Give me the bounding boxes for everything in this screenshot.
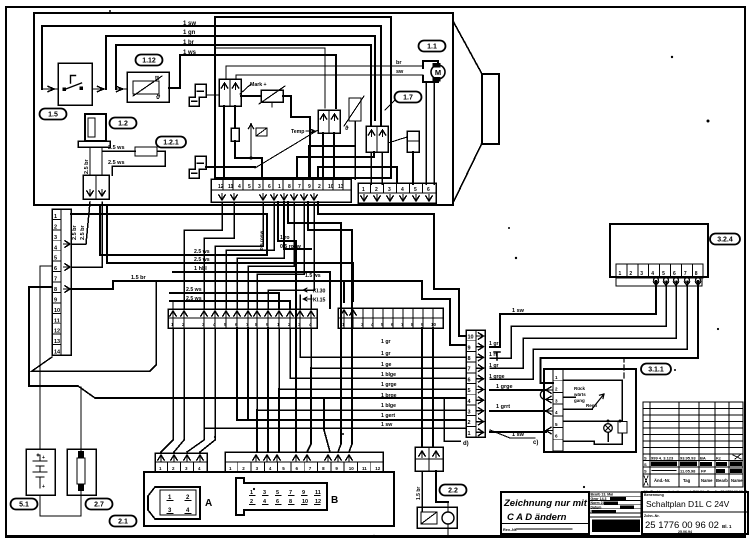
overheat sensor box — [261, 90, 283, 102]
svg-text:Tag: Tag — [683, 478, 691, 483]
svg-text:Rev.-Nr.: Rev.-Nr. — [503, 528, 517, 532]
strip B pins — [253, 455, 259, 462]
wire iface row6 — [290, 328, 466, 378]
svg-text:6: 6 — [427, 187, 430, 193]
324 lower rect — [616, 277, 702, 286]
terminal block pins down — [87, 190, 93, 197]
wire 2.2 left drop — [421, 471, 423, 511]
revision table — [643, 402, 743, 487]
svg-text:1 rt: 1 rt — [489, 352, 497, 358]
wire drop s1p7 — [257, 202, 304, 308]
temp pointer diagonal — [255, 130, 318, 168]
switch S1 box — [58, 63, 92, 105]
311 lamp circle — [604, 424, 613, 433]
311 connector strip — [553, 369, 563, 451]
motor feed drops — [425, 82, 427, 184]
svg-text:C A D ändern: C A D ändern — [507, 512, 567, 523]
wire drop s1p5 — [237, 202, 284, 308]
311 wire lamp row — [563, 420, 620, 422]
svg-text:wärts: wärts — [573, 392, 586, 397]
wire row8 right — [71, 281, 466, 345]
311 dashed lamp line — [619, 358, 629, 378]
svg-text:2: 2 — [318, 184, 321, 190]
strip2 lower pins — [361, 195, 367, 202]
CAD note divider — [501, 523, 589, 525]
motor connector bracket — [423, 61, 438, 82]
wire iface row4 — [267, 328, 269, 398]
svg-text:3: 3 — [640, 271, 643, 277]
motor M1 circle — [431, 65, 445, 79]
wire staircase w3 — [318, 167, 397, 183]
wire 4 ws top — [180, 55, 336, 108]
title divider — [642, 511, 748, 513]
wire strip2 pinA path — [434, 214, 466, 336]
2.2 device box — [417, 507, 457, 528]
svg-text:1 grrt: 1 grrt — [496, 404, 510, 410]
wire Kl30 stub — [303, 288, 312, 292]
wire 2.2 right drop — [436, 471, 448, 502]
fuse 2.7 box — [67, 449, 96, 495]
dosing pump coil — [88, 118, 95, 137]
svg-text:2.5 br: 2.5 br — [80, 224, 86, 240]
strip1 lower pins — [219, 194, 225, 201]
label oval 2.7 — [86, 499, 113, 510]
wire drop s1p1 — [184, 202, 222, 308]
wire 2.2 right feed — [236, 328, 238, 420]
324 pin circles — [654, 278, 659, 283]
wire drop s1p6 — [248, 202, 294, 308]
heater unit enclosure — [34, 13, 453, 205]
svg-text:2.5 ws: 2.5 ws — [194, 249, 210, 255]
svg-text:Zchn.-Nr.: Zchn.-Nr. — [644, 514, 660, 518]
CAD note box — [501, 492, 589, 534]
svg-text:9: 9 — [468, 345, 471, 351]
svg-text:2.5 ws: 2.5 ws — [186, 296, 202, 302]
wire flag to diagonal — [206, 166, 255, 168]
resistor R1 inner — [231, 128, 239, 141]
svg-text:10: 10 — [328, 184, 334, 190]
label oval 1.5 — [40, 109, 67, 120]
svg-text:10: 10 — [468, 335, 474, 341]
label oval 1.12 — [136, 55, 163, 66]
wire 1 sw top — [42, 26, 381, 126]
left strip pins right — [64, 241, 71, 247]
ground flag lower — [189, 156, 206, 178]
svg-text:14: 14 — [54, 350, 61, 356]
svg-text:S: S — [644, 456, 647, 461]
svg-text:B: B — [331, 495, 338, 506]
wire b9 long — [288, 202, 341, 452]
wire battery to fuse bottom — [40, 495, 81, 516]
label oval 2.2 — [440, 485, 467, 496]
connector strip B — [225, 452, 383, 472]
wire glowplug right — [169, 87, 180, 89]
wire flag to Mark connector — [206, 94, 219, 96]
svg-text:Kz: Kz — [716, 456, 721, 461]
pointer 1.7 — [385, 100, 395, 110]
wire drop s1p8 — [268, 202, 314, 308]
svg-text:d): d) — [463, 441, 469, 447]
wire iface row5 — [279, 328, 466, 389]
label oval 1.7 — [395, 92, 422, 103]
wire drop s1p2 — [204, 202, 234, 308]
svg-text:Mark +: Mark + — [250, 82, 267, 88]
svg-text:S: S — [644, 469, 647, 474]
wire iface row3 — [257, 328, 466, 410]
svg-text:1.2: 1.2 — [118, 121, 128, 128]
scan specks — [671, 56, 673, 58]
svg-text:5: 5 — [555, 422, 558, 427]
wire staircase w1 — [297, 152, 374, 179]
glow plug resistor symbol — [133, 81, 159, 94]
heater terminal strip 2 — [358, 183, 436, 203]
svg-text:1 grge: 1 grge — [496, 384, 513, 390]
svg-text:1: 1 — [619, 271, 622, 277]
324 terminal strip — [616, 264, 703, 278]
svg-text:3.2.4: 3.2.4 — [717, 237, 733, 244]
battery symbol — [33, 454, 47, 488]
terminal block X1 — [83, 175, 109, 199]
svg-text:1.5 br: 1.5 br — [131, 275, 147, 281]
svg-text:1 sw: 1 sw — [183, 21, 196, 27]
svg-text:1 brge: 1 brge — [381, 393, 397, 399]
wire 2.2 left branch — [421, 398, 423, 447]
svg-text:8: 8 — [695, 271, 698, 277]
label oval 2.1 — [110, 516, 137, 527]
svg-text:1: 1 — [555, 375, 558, 380]
wire B feeds — [256, 410, 258, 452]
2.2 circle — [442, 512, 454, 524]
svg-text:11.05.98: 11.05.98 — [680, 469, 696, 474]
fuse symbol — [77, 458, 85, 484]
wire 15ws up — [343, 281, 345, 302]
revision header row — [644, 476, 648, 485]
svg-text:10: 10 — [431, 322, 437, 327]
inner wires drop right — [370, 152, 372, 184]
relay junction dot — [249, 156, 252, 159]
overheat sensor slash — [259, 86, 285, 104]
wire to 1.2.1 upper — [103, 150, 135, 152]
wire resistor top — [234, 106, 236, 128]
ground flag upper — [189, 84, 206, 106]
wire 1 ro branch — [278, 202, 296, 452]
wire H1 row1 — [71, 213, 267, 215]
svg-text:5: 5 — [662, 271, 665, 277]
svg-text:c): c) — [533, 440, 538, 446]
wire 2.5 ws power b — [107, 205, 353, 301]
svg-text:tt: tt — [155, 76, 159, 82]
revision table columns — [649, 402, 651, 487]
svg-text:2.1: 2.1 — [118, 519, 128, 526]
wire inner drop — [215, 48, 325, 108]
wire long vertical 156 — [32, 281, 156, 371]
svg-text:2.5 ws: 2.5 ws — [108, 145, 125, 151]
interface strip 10-1 — [466, 330, 485, 437]
svg-text:12: 12 — [218, 184, 224, 190]
svg-text:25.06.94: 25.06.94 — [678, 530, 692, 534]
thermo arrow — [344, 96, 364, 126]
svg-text:1 gn: 1 gn — [183, 30, 196, 36]
wire flame diag — [388, 137, 407, 143]
svg-text:4: 4 — [401, 187, 404, 193]
svg-text:2: 2 — [375, 187, 378, 193]
svg-text:1 br: 1 br — [183, 40, 195, 46]
Mark+ leader line — [240, 84, 251, 94]
svg-text:11: 11 — [362, 466, 367, 471]
wire flame drop — [412, 152, 414, 184]
label oval 3.1.1 — [641, 364, 671, 375]
svg-text:Benennung: Benennung — [644, 493, 664, 497]
frame bottom emphasis — [6, 535, 745, 537]
svg-text:5.1: 5.1 — [19, 502, 29, 509]
svg-text:1: 1 — [278, 184, 281, 190]
svg-text:4: 4 — [651, 271, 654, 277]
svg-text:2.5 br: 2.5 br — [84, 158, 90, 174]
svg-text:1.12: 1.12 — [142, 58, 156, 65]
svg-text:+: + — [42, 484, 45, 490]
wire 05 rosw branch — [284, 202, 311, 249]
svg-text:2: 2 — [629, 271, 632, 277]
sensor tail — [271, 102, 273, 107]
svg-text:4: 4 — [555, 410, 558, 415]
311 jumper loop — [540, 390, 546, 400]
svg-text:Änd.-Nr.: Änd.-Nr. — [654, 478, 670, 483]
svg-text:2.5 br: 2.5 br — [72, 224, 78, 240]
svg-text:3: 3 — [468, 410, 471, 416]
stamp table — [589, 492, 641, 517]
svg-text:+: + — [42, 455, 45, 461]
wire sw row5 — [490, 389, 546, 391]
svg-text:2.5 ws: 2.5 ws — [108, 160, 125, 166]
interface strip pins — [477, 333, 484, 339]
wire 3 br top — [116, 45, 371, 126]
svg-text:1.5: 1.5 — [48, 112, 58, 119]
wire relay bottom link — [235, 157, 262, 159]
svg-text:S: S — [644, 462, 647, 467]
svg-text:7: 7 — [298, 184, 301, 190]
wire drop s1p9 — [278, 293, 280, 308]
svg-text:5: 5 — [414, 187, 417, 193]
wire 324 w4 — [490, 281, 687, 379]
svg-text:2.5 ws: 2.5 ws — [194, 257, 210, 263]
wire iface row7 — [311, 328, 466, 368]
svg-text:Name: Name — [701, 478, 713, 483]
wire drops 300 311 — [299, 295, 301, 308]
svg-text:6: 6 — [555, 434, 558, 439]
wire 1 sw diag — [490, 430, 535, 438]
svg-text:2.7: 2.7 — [94, 502, 104, 509]
connector B outline — [236, 478, 327, 515]
wire from 1.2.1 lower — [112, 151, 165, 175]
svg-text:1.7: 1.7 — [403, 95, 413, 102]
wire staircase w2 — [309, 146, 355, 179]
wire resistor drop — [234, 141, 236, 158]
svg-text:3: 3 — [388, 187, 391, 193]
svg-text:12: 12 — [375, 466, 381, 471]
glow plug box 1.12 — [127, 72, 169, 102]
svg-text:6: 6 — [468, 377, 471, 383]
svg-text:1.5 br: 1.5 br — [416, 487, 422, 500]
blower housing trapezoid — [453, 21, 482, 203]
svg-text:999 4. 3.123: 999 4. 3.123 — [651, 456, 674, 461]
311 left pins — [546, 387, 553, 393]
svg-text:11: 11 — [228, 184, 234, 190]
wire iface row8 — [300, 328, 466, 357]
svg-text:1: 1 — [362, 187, 365, 193]
svg-text:Kl.15: Kl.15 — [313, 298, 326, 304]
dosing pump base — [78, 141, 110, 147]
svg-text:1.5 ws: 1.5 ws — [305, 273, 321, 279]
temp connector — [318, 110, 340, 133]
wire sw row3 — [490, 410, 546, 412]
wire H1b — [318, 202, 434, 214]
svg-text:8: 8 — [468, 356, 471, 362]
svg-text:Temp: Temp — [291, 129, 304, 135]
middle terminal strip left — [168, 309, 317, 328]
svg-text:ϑ: ϑ — [345, 126, 349, 132]
svg-text:1 sw: 1 sw — [381, 422, 393, 428]
connector B2 right — [366, 126, 388, 152]
svg-text:Kl.30: Kl.30 — [313, 289, 326, 295]
wire sw row1 — [490, 431, 546, 433]
2.2 circle stem — [447, 502, 449, 512]
svg-text:Schaltplan D1L C 24V: Schaltplan D1L C 24V — [646, 499, 730, 509]
label oval 1.2.1 — [156, 137, 186, 148]
svg-text:2: 2 — [555, 387, 558, 392]
connector A inner — [160, 490, 196, 515]
svg-text:1.2.1: 1.2.1 — [163, 140, 179, 147]
2.2 slash box — [421, 512, 437, 524]
thermo resistor — [349, 98, 361, 121]
svg-text:2: 2 — [468, 420, 471, 426]
svg-text:1 ge: 1 ge — [381, 362, 391, 368]
glow plug slash — [133, 76, 162, 96]
svg-text:Rück: Rück — [574, 386, 586, 391]
wire temp pins drop — [322, 133, 324, 179]
left terminal strip 14pin — [52, 209, 71, 355]
middle strip left pins — [170, 311, 176, 318]
wire relay drop — [261, 158, 263, 179]
wire fuse feed — [80, 387, 82, 449]
311 wire row3 contact — [563, 408, 592, 410]
wire row4 to block — [71, 202, 90, 244]
wire Mark to motor sw — [236, 75, 423, 79]
svg-text:1 gert: 1 gert — [381, 413, 395, 419]
svg-text:4: 4 — [238, 184, 241, 190]
svg-text:7: 7 — [684, 271, 687, 277]
311 wire to resistor — [563, 380, 622, 421]
svg-text:93.95.93: 93.95.93 — [680, 456, 696, 461]
svg-text:1 gr: 1 gr — [489, 341, 499, 347]
svg-text:Bl. 1: Bl. 1 — [722, 524, 732, 529]
svg-text:1 blge: 1 blge — [381, 372, 396, 378]
svg-text:Name: Name — [731, 478, 743, 483]
wire 324 w5 — [541, 281, 699, 358]
wire 324 w1 — [490, 281, 656, 347]
motor terminal tabs — [433, 63, 441, 68]
wire iface row1 — [204, 427, 466, 429]
wire drop s1p4 — [226, 202, 274, 308]
wire 2.5 ws power a — [100, 205, 267, 255]
wire b10 long — [308, 202, 352, 452]
wire d stub — [444, 398, 460, 441]
svg-text:10: 10 — [349, 466, 355, 471]
wire Mark to motor br — [226, 66, 423, 79]
wire drop s1p3 — [215, 202, 263, 308]
title box — [642, 492, 748, 534]
svg-text:5: 5 — [468, 388, 471, 394]
heater terminal strip 1 — [211, 179, 351, 202]
label oval 3.2.4 — [710, 234, 740, 245]
svg-text:Bearb: Bearb — [716, 478, 728, 483]
svg-text:0.5 rosw: 0.5 rosw — [259, 231, 265, 250]
svg-text:sw: sw — [396, 69, 404, 75]
wire 324 w3 — [490, 281, 676, 368]
relay arrow line — [249, 124, 254, 158]
svg-text:3: 3 — [555, 398, 558, 403]
connector 2.2 strip — [415, 447, 443, 471]
svg-text:3: 3 — [258, 184, 261, 190]
wire 2 gn top — [106, 36, 375, 120]
tick mark above switch — [494, 352, 500, 360]
wire switch to corner — [92, 86, 106, 91]
svg-text:5: 5 — [248, 184, 251, 190]
svg-text:6: 6 — [268, 184, 271, 190]
svg-text:6: 6 — [673, 271, 676, 277]
svg-text:1 hbl: 1 hbl — [194, 266, 207, 272]
wire sensor left — [241, 95, 261, 97]
svg-text:2.5 ws: 2.5 ws — [186, 287, 202, 293]
middle strip right pins — [341, 310, 347, 317]
svg-text:M: M — [435, 68, 441, 77]
control unit box (inside heater) — [215, 17, 391, 178]
dosing pump legs — [89, 147, 91, 175]
wire 1 hbl — [173, 272, 330, 308]
wire sensor right — [283, 96, 310, 179]
middle terminal strip right — [338, 308, 443, 328]
wire into switch — [42, 86, 58, 91]
label oval 1.2 — [110, 118, 137, 129]
svg-text:1 sw: 1 sw — [512, 432, 525, 438]
svg-text:A: A — [205, 498, 212, 509]
connector strip A — [155, 453, 207, 472]
svg-text:1 blge: 1 blge — [381, 403, 396, 409]
wire battery feed — [40, 266, 52, 449]
svg-text:FP: FP — [701, 469, 706, 474]
svg-text:8: 8 — [288, 184, 291, 190]
311 bottom wires — [563, 433, 622, 444]
svg-text:1 grge: 1 grge — [381, 382, 397, 388]
stamp black box — [592, 520, 640, 533]
svg-text:gang: gang — [574, 398, 585, 403]
svg-text:1: 1 — [468, 431, 471, 437]
wire row8 left loop — [29, 287, 466, 398]
svg-text:br: br — [396, 60, 402, 66]
wire row6 to block — [71, 202, 102, 267]
switch unit 3.1.1 box — [544, 369, 636, 452]
flame detector — [407, 131, 419, 152]
relay K1 box — [256, 128, 267, 136]
wire 2.2 cell drops — [421, 328, 423, 398]
svg-text:2.2: 2.2 — [448, 488, 458, 495]
switch S1 contact — [65, 76, 82, 90]
connector A outline — [148, 487, 200, 519]
svg-text:1 gr: 1 gr — [381, 351, 391, 357]
svg-text:3.1.1: 3.1.1 — [648, 367, 664, 374]
311 small box resistor — [618, 422, 627, 434]
blower outlet — [482, 74, 499, 144]
wire br arrow to glowplug — [116, 86, 127, 91]
